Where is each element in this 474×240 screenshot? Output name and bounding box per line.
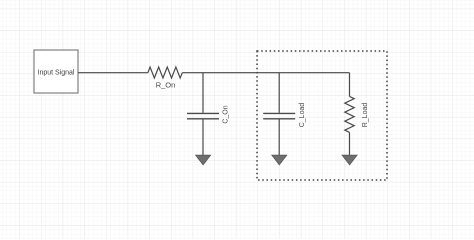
ground under R_Load <box>342 155 357 165</box>
wire C_Load bottom <box>278 119 280 155</box>
wire R_Load bottom <box>349 132 351 155</box>
block Input Signal <box>34 50 78 93</box>
wire C_On bottom <box>202 119 204 155</box>
svg-text:Input Signal: Input Signal <box>38 70 75 77</box>
wire C_On top (junction at node) <box>202 73 204 113</box>
wire from Input Signal to R_On <box>78 72 148 74</box>
ground under C_Load <box>272 155 287 165</box>
wire from R_On to R_Load corner (main net) <box>182 72 349 74</box>
dashed subsystem boundary box <box>257 51 387 180</box>
resistor R_On <box>148 67 182 89</box>
capacitor C_On <box>187 105 230 123</box>
wire R_Load top (corner from main net) <box>349 73 351 97</box>
svg-text:C_Load: C_Load <box>299 103 306 128</box>
resistor R_Load <box>345 96 369 132</box>
svg-text:R_On: R_On <box>156 80 176 89</box>
svg-text:R_Load: R_Load <box>362 103 369 128</box>
ground under C_On <box>196 155 211 165</box>
svg-text:C_On: C_On <box>223 105 230 123</box>
wire C_Load top <box>278 73 280 113</box>
capacitor C_Load <box>263 103 306 128</box>
